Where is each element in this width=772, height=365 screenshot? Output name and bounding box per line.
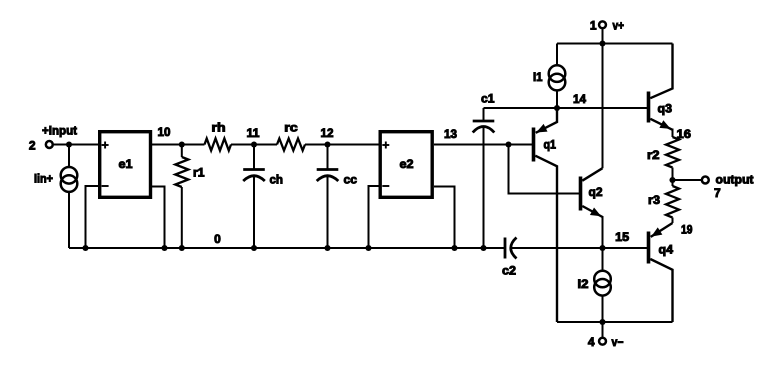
- wire v- terminal: [602, 322, 604, 338]
- svg-text:q3: q3: [658, 102, 673, 116]
- wire to output terminal: [673, 179, 702, 181]
- label rh: [212, 121, 226, 135]
- label c1: [481, 92, 495, 106]
- transistor q4 base bar: [647, 232, 651, 264]
- e2 plus terminal mark: [382, 142, 389, 149]
- junction ch / node 0: [251, 245, 257, 251]
- label +Input: [42, 124, 77, 138]
- svg-text:1: 1: [590, 19, 597, 33]
- svg-text:v+: v+: [613, 19, 625, 33]
- junction node 2 / Iin+: [66, 141, 72, 147]
- svg-text:q2: q2: [589, 185, 603, 199]
- svg-text:r2: r2: [647, 148, 660, 162]
- junction node 10 / r1: [179, 141, 185, 147]
- wire v+ terminal to q2 collector: [602, 28, 604, 168]
- label c2: [502, 264, 516, 278]
- current source I2: [594, 248, 611, 322]
- junction node 12: [324, 141, 330, 147]
- label node 14: [573, 92, 586, 106]
- wire node 13 to q1 base: [434, 144, 534, 146]
- label node 1: [590, 19, 597, 33]
- svg-text:+Input: +Input: [42, 124, 77, 138]
- svg-text:15: 15: [615, 230, 629, 244]
- junction e2 out- / node 0: [451, 245, 457, 251]
- label node 10: [158, 125, 171, 139]
- svg-text:11: 11: [247, 126, 260, 140]
- junction c1 / node 0: [480, 245, 486, 251]
- label v-: [612, 335, 624, 349]
- svg-text:e2: e2: [400, 157, 414, 171]
- label node 7: [714, 186, 721, 200]
- svg-text:r3: r3: [648, 193, 660, 207]
- e1 minus terminal mark: [102, 185, 109, 187]
- label node 4: [588, 335, 595, 349]
- current source Iin+: [61, 145, 78, 249]
- transistor q1 collector: [535, 156, 557, 322]
- wire node 10: [152, 144, 205, 146]
- transistor q4 collector: [650, 259, 672, 322]
- label I1: [533, 70, 543, 84]
- junction e1 out- / node 0: [161, 245, 167, 251]
- ground rail node 0: [69, 247, 505, 249]
- label q3: [658, 102, 673, 116]
- label node 16: [677, 127, 692, 141]
- transistor q3 base bar: [647, 92, 651, 123]
- junction node 11: [251, 141, 257, 147]
- svg-text:2: 2: [29, 139, 36, 153]
- svg-text:0: 0: [214, 232, 221, 246]
- capacitor cc: [317, 145, 339, 249]
- transistor q2 emitter: [582, 206, 602, 248]
- v+ rail: [557, 43, 673, 45]
- current source I1: [549, 44, 566, 109]
- label cc: [344, 173, 358, 187]
- transistor q4 emitter: [651, 223, 673, 237]
- wire e2 minus input to ground: [369, 186, 379, 248]
- wire rc to e2 + input: [305, 144, 380, 146]
- transistor q1 emitter: [536, 108, 557, 133]
- svg-text:c2: c2: [502, 264, 516, 278]
- label q1: [544, 138, 557, 152]
- label node 11: [247, 126, 260, 140]
- svg-text:12: 12: [321, 126, 334, 140]
- capacitor c2: [505, 238, 649, 259]
- wire e1 minus input to ground: [86, 186, 99, 248]
- label e1: [119, 157, 133, 171]
- label r2: [647, 148, 660, 162]
- resistor r2: [666, 137, 679, 180]
- svg-text:cc: cc: [344, 173, 358, 187]
- v- rail: [557, 321, 673, 323]
- svg-text:14: 14: [573, 92, 586, 106]
- label q2: [589, 185, 603, 199]
- terminal node 1 v+: [599, 21, 606, 28]
- junction v+ rail: [599, 40, 605, 46]
- svg-text:q1: q1: [544, 138, 557, 152]
- svg-text:Iin+: Iin+: [34, 172, 53, 186]
- svg-text:rc: rc: [284, 121, 298, 135]
- svg-text:c1: c1: [481, 92, 495, 106]
- transistor q2 collector: [582, 168, 602, 181]
- svg-text:19: 19: [681, 223, 693, 237]
- label output: [716, 172, 754, 186]
- svg-text:v−: v−: [612, 335, 624, 349]
- svg-text:10: 10: [158, 125, 171, 139]
- svg-text:output: output: [716, 172, 754, 186]
- transistor q2 base bar: [579, 177, 583, 211]
- label e2: [400, 157, 414, 171]
- junction node 15: [599, 245, 605, 251]
- svg-text:e1: e1: [119, 157, 133, 171]
- junction r1 / node 0: [179, 245, 185, 251]
- junction e1 minus / node 0: [82, 245, 88, 251]
- junction cc / node 0: [324, 245, 330, 251]
- resistor r1: [175, 145, 188, 249]
- junction node 13: [505, 141, 511, 147]
- terminal node 4 v-: [599, 338, 606, 345]
- vcvs e1: [100, 132, 151, 198]
- svg-text:4: 4: [588, 335, 595, 349]
- transistor q3 collector: [650, 44, 672, 99]
- label ch: [270, 173, 284, 187]
- junction output node: [669, 177, 675, 183]
- terminal node 2 (+Input): [46, 141, 53, 148]
- label v+: [613, 19, 625, 33]
- wire e2 out- to ground: [434, 187, 455, 249]
- resistor rh: [205, 139, 232, 151]
- wire e1 out- to ground: [152, 187, 165, 249]
- label node 12: [321, 126, 334, 140]
- wire rh to rc: [231, 144, 277, 146]
- svg-text:I2: I2: [578, 277, 589, 291]
- wire node 2 to e1 + input: [53, 144, 99, 146]
- label r3: [648, 193, 660, 207]
- svg-text:r1: r1: [193, 166, 205, 180]
- junction v- rail: [599, 319, 605, 325]
- label I2: [578, 277, 589, 291]
- transistor q1 base bar: [532, 128, 536, 162]
- svg-text:I1: I1: [533, 70, 543, 84]
- junction node 14: [554, 105, 560, 111]
- wire node 13 to q2 base: [509, 145, 581, 194]
- label Iin+: [34, 172, 53, 186]
- capacitor c1: [473, 108, 495, 248]
- label q4: [659, 243, 674, 257]
- label node 13: [444, 127, 457, 141]
- svg-text:rh: rh: [212, 121, 226, 135]
- transistor q3 emitter: [650, 119, 672, 137]
- terminal node 7 output: [702, 177, 709, 184]
- svg-text:q4: q4: [659, 243, 674, 257]
- svg-text:16: 16: [677, 127, 692, 141]
- e2 minus terminal mark: [382, 185, 389, 187]
- svg-text:13: 13: [444, 127, 457, 141]
- label node 15: [615, 230, 629, 244]
- label node 19: [681, 223, 693, 237]
- junction e2 minus / node 0: [365, 245, 371, 251]
- resistor rc: [277, 139, 305, 151]
- capacitor ch: [243, 145, 265, 249]
- e1 plus terminal mark: [102, 142, 109, 149]
- label node 2: [29, 139, 36, 153]
- vcvs e2: [380, 132, 432, 198]
- label node 0: [214, 232, 221, 246]
- svg-text:ch: ch: [270, 173, 284, 187]
- svg-text:7: 7: [714, 186, 721, 200]
- resistor r3: [666, 180, 679, 223]
- label rc: [284, 121, 298, 135]
- label r1: [193, 166, 205, 180]
- wire node 14: [484, 107, 649, 109]
